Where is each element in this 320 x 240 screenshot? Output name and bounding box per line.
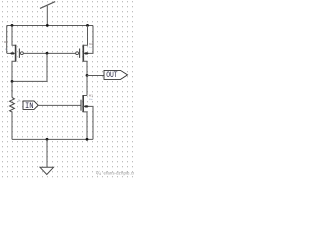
wire M1 bulk to VDD (6, 26, 8, 54)
wire OUT node to port (87, 75, 104, 77)
wire IN to M3 gate (38, 104, 81, 106)
node junction rail-M3 source (86, 138, 89, 141)
node OUT junction (86, 74, 89, 77)
node junction VDD-M2 drain (86, 24, 89, 27)
node wire-end tick (11, 90, 12, 91)
VDD power tick (40, 2, 55, 26)
node M1 source junction (11, 80, 14, 83)
svg-text:M3: M3 (89, 93, 93, 97)
node junction rail-ground (46, 138, 49, 141)
transistor M1 (4, 26, 23, 82)
svg-text:OUT: OUT (106, 72, 118, 80)
svg-text:IN: IN (25, 102, 34, 111)
ground (40, 139, 54, 174)
node gate junction (46, 52, 49, 55)
resistor R1 (10, 81, 22, 139)
transistor M3 (81, 93, 93, 139)
svg-text:efans-dzhpib.cn: efans-dzhpib.cn (104, 171, 135, 176)
wire ground rail (12, 138, 93, 140)
node junction VDD-M1 drain (11, 24, 14, 27)
wire OUT node down to M3 drain (86, 75, 88, 95)
port OUT (104, 70, 128, 80)
svg-text:M1: M1 (4, 40, 8, 44)
wire gate junction down to M1 source node (12, 53, 47, 81)
node junction VDD-tick (46, 24, 49, 27)
svg-text:M2: M2 (89, 42, 93, 46)
wire gate net M1-M2 (23, 52, 75, 54)
port IN (23, 101, 38, 111)
wire VDD rail (7, 25, 93, 27)
transistor M2 (76, 26, 94, 76)
